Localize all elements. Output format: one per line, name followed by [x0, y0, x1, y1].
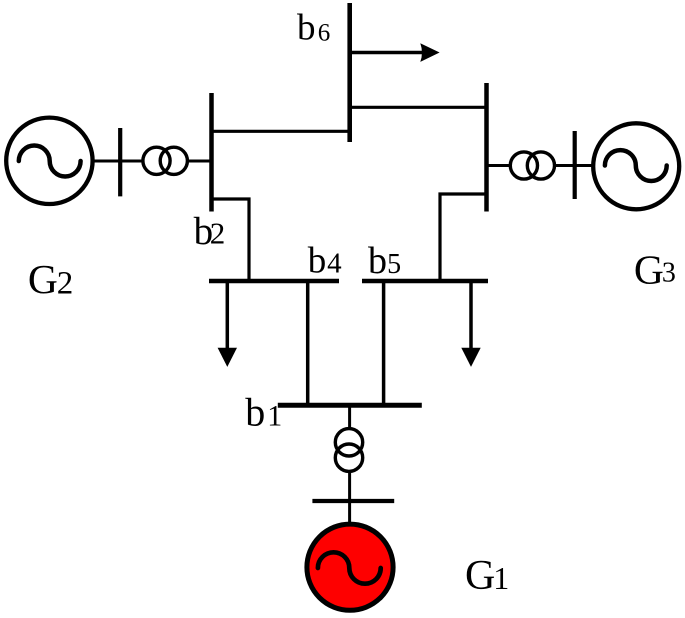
bus b4 (horizontal busbar): [209, 279, 339, 284]
bus b1 (horizontal busbar): [278, 403, 422, 408]
bus terminal bar of G1: [312, 499, 394, 503]
svg-text:b: b: [297, 8, 316, 49]
wire transformer T2 to bus b2: [188, 160, 212, 163]
bus b3 (right vertical busbar): [484, 83, 489, 212]
transformer T2 (two overlapping circles): [143, 147, 188, 174]
load arrow at bus b6: [350, 43, 440, 62]
svg-text:2: 2: [210, 216, 226, 251]
wire bus b2 to bus b6: [212, 130, 351, 133]
wire bus b6 to bus b3: [350, 106, 487, 109]
wire bus b4 to bus b1: [306, 281, 310, 405]
bus b5 (horizontal busbar): [362, 279, 488, 284]
label b1: [245, 389, 282, 434]
svg-text:1: 1: [267, 399, 282, 432]
load arrow at bus b5: [461, 283, 480, 367]
svg-text:3: 3: [662, 257, 676, 288]
wire transformer T1 to terminal bar: [348, 473, 351, 501]
transformer T3 (two overlapping circles): [510, 152, 554, 179]
bus terminal bar of G2: [118, 128, 122, 196]
load arrow at bus b4: [218, 283, 237, 367]
wire bus b5 to bus b1: [382, 281, 386, 405]
wire terminal bar to generator G1: [348, 501, 351, 526]
svg-text:b: b: [308, 240, 327, 281]
svg-text:G: G: [634, 247, 664, 293]
generator G3: [593, 123, 679, 209]
wire transformer T3 to G3: [555, 164, 594, 167]
label G3: [634, 247, 676, 293]
svg-text:5: 5: [387, 249, 401, 280]
svg-text:G: G: [28, 256, 58, 302]
wire bus b3 to bus b5 (L-shape): [440, 194, 487, 281]
bus terminal bar of G3: [573, 131, 577, 199]
generator G2: [6, 118, 92, 204]
svg-text:b: b: [368, 240, 387, 282]
svg-text:1: 1: [493, 560, 509, 596]
bus b2 (vertical busbar): [209, 93, 214, 212]
wire bus b1 to transformer T1: [348, 405, 351, 429]
label b2: [194, 210, 226, 253]
wire bus b3 to transformer T3: [487, 164, 513, 167]
label b5: [368, 240, 401, 282]
wire bus b2 to bus b4 (L-shape): [212, 199, 250, 281]
label b4: [308, 240, 342, 281]
label G2: [28, 256, 73, 302]
svg-text:4: 4: [327, 247, 342, 279]
bus b6 (vertical busbar): [347, 3, 352, 142]
label G1: [465, 553, 509, 599]
transformer T1 (two overlapping circles, vertical): [335, 429, 362, 472]
generator G1 (red): [307, 524, 393, 610]
wire G2 to transformer T2: [92, 160, 143, 163]
svg-text:6: 6: [318, 19, 331, 46]
svg-text:2: 2: [57, 265, 74, 301]
label b6: [297, 8, 330, 49]
svg-text:G: G: [465, 553, 495, 599]
svg-text:b: b: [245, 389, 265, 434]
